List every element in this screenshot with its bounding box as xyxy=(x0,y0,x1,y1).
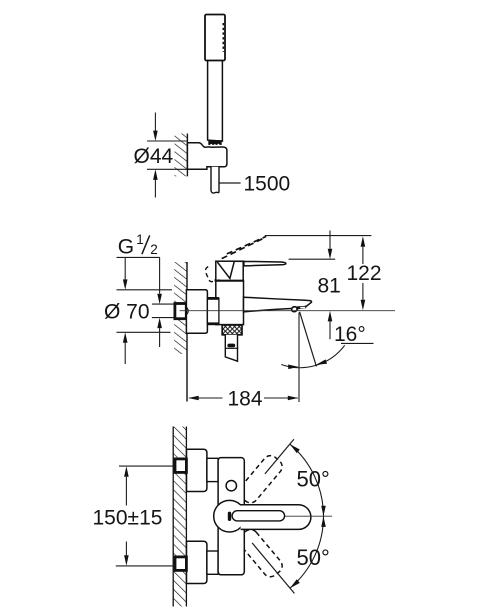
lever bar outline xyxy=(241,505,311,530)
svg-text:122: 122 xyxy=(347,262,382,285)
body top bold edge xyxy=(215,279,244,282)
dim O70 upper arrow xyxy=(123,257,128,289)
svg-text:2: 2 xyxy=(150,242,158,257)
top escutcheon (front) xyxy=(187,449,207,491)
dim O70 lower arrow xyxy=(123,332,128,364)
wall line (top section) xyxy=(186,134,188,177)
hose nut dark band xyxy=(208,140,221,145)
upper 50 arc xyxy=(290,444,324,516)
G1/2 lower arrow xyxy=(157,318,162,347)
s-union xyxy=(207,298,219,324)
svg-text:150±15: 150±15 xyxy=(93,507,163,530)
extension line raised lever top (122) xyxy=(265,235,372,237)
tube cross line xyxy=(225,347,238,349)
screw circle xyxy=(226,481,236,491)
dim 81 upper arrow xyxy=(328,231,333,260)
dim 122 lower arrow xyxy=(361,283,366,310)
thread circle behind wall xyxy=(185,307,188,315)
shower handle xyxy=(208,61,223,142)
upper 50 leg line xyxy=(265,439,294,474)
leader line 1500 xyxy=(219,182,240,184)
escutcheon (side view) xyxy=(186,290,207,333)
wall strip hatch (front view) xyxy=(173,427,186,607)
horizontal reference line xyxy=(285,515,332,517)
pivot circle xyxy=(214,500,246,532)
nut bumps xyxy=(210,144,219,146)
extension line lever top (81) xyxy=(289,258,336,260)
dim O70 extension top xyxy=(117,289,173,291)
G1/2 thread extension bottom xyxy=(152,317,175,319)
svg-text:1: 1 xyxy=(136,232,144,247)
bottom union (front) xyxy=(207,551,218,574)
dashed lever raised position xyxy=(222,236,267,258)
dim O70 extension bottom xyxy=(117,331,171,333)
shower hose with break cut xyxy=(211,167,219,193)
dim 150 lower arrow xyxy=(124,542,129,566)
spray face dashed line xyxy=(222,23,224,52)
lever blade (side view) xyxy=(234,261,286,266)
wall strip left line xyxy=(172,427,174,607)
lower 50 arc xyxy=(290,516,324,588)
G1/2 thread extension top xyxy=(152,303,175,305)
G1/2 square bottom (front) xyxy=(175,557,186,571)
G1/2 upper arrow xyxy=(157,257,162,304)
svg-text:50°: 50° xyxy=(297,545,330,570)
wall hatch (top section) xyxy=(175,134,188,177)
dashed lever down 50 xyxy=(236,526,285,579)
hand shower head xyxy=(205,15,225,61)
dim 150 extension top xyxy=(119,465,175,467)
dim 184 line right segment xyxy=(264,396,298,401)
upper arc arrow at horizontal xyxy=(321,506,326,516)
svg-text:Ø44: Ø44 xyxy=(134,145,174,168)
dim Ø44 upper arrow xyxy=(153,113,158,142)
upper arc arrow at leg xyxy=(290,444,300,453)
spout xyxy=(244,297,312,312)
dim 81 lower arrow xyxy=(328,311,333,339)
centerline xyxy=(180,310,395,312)
lever inner slot xyxy=(232,511,285,521)
G 1/2 shelf line xyxy=(117,256,160,258)
dim 122 upper arrow xyxy=(361,236,366,264)
wall strip right line xyxy=(185,427,187,607)
svg-text:G: G xyxy=(118,236,134,259)
top union (front) xyxy=(207,458,218,481)
dim 150 extension bottom xyxy=(116,565,175,567)
svg-text:1500: 1500 xyxy=(244,173,291,196)
lower arc arrow at horizontal xyxy=(321,516,326,527)
svg-text:81: 81 xyxy=(318,275,341,298)
svg-text:184: 184 xyxy=(228,388,263,411)
16 arc arrow at vertical xyxy=(288,365,299,370)
bottom escutcheon (front) xyxy=(187,541,207,583)
dashed lever lower position xyxy=(205,267,219,282)
G1/2 square top (front) xyxy=(175,459,186,473)
knurled hose nut xyxy=(222,325,242,335)
shower holder bracket xyxy=(187,143,227,170)
lever neck lines xyxy=(217,262,234,279)
16 degree arc xyxy=(281,345,344,367)
svg-text:16°: 16° xyxy=(334,323,366,346)
dim Ø44 extension line bottom xyxy=(147,168,187,170)
16 arc arrow at slant xyxy=(316,359,327,365)
dashed lever up 50 xyxy=(236,453,285,506)
lever bar fill xyxy=(241,505,311,530)
lower 50 leg line xyxy=(252,543,294,594)
pivot dark slot xyxy=(228,512,231,521)
check valve dark pill xyxy=(227,344,235,348)
dim 150 upper arrow xyxy=(124,466,129,505)
16 shelf line xyxy=(341,342,374,344)
dim Ø44 lower arrow xyxy=(153,169,158,197)
wall line (middle section) xyxy=(186,262,188,402)
bottom outlet tube xyxy=(225,335,237,361)
16 degree slant line xyxy=(300,312,317,367)
label G 1/2 xyxy=(118,232,158,259)
G1/2 connection square xyxy=(175,304,186,319)
svg-text:50°: 50° xyxy=(297,467,330,492)
cartridge collar xyxy=(216,261,243,280)
lower arc arrow at leg xyxy=(290,579,300,588)
aerator outlet xyxy=(291,306,307,312)
184 right extension / angle vertical line xyxy=(298,313,300,403)
mixer body (front) xyxy=(218,458,244,575)
dim Ø44 extension line top xyxy=(147,140,187,142)
s-union bold edges xyxy=(207,298,219,323)
dim 184 line left segment xyxy=(188,396,222,401)
wall hatch (middle section) xyxy=(174,262,187,354)
mixer body (side view) xyxy=(216,280,244,324)
svg-text:Ø 70: Ø 70 xyxy=(104,301,150,324)
